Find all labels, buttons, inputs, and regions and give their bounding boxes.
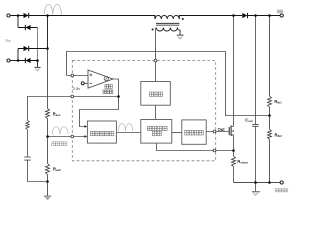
svg-text:Vin: Vin [5, 38, 11, 43]
svg-text:Rfb1: Rfb1 [274, 99, 282, 104]
svg-text:2.5v: 2.5v [73, 86, 80, 91]
svg-text:Rac2: Rac2 [53, 167, 61, 172]
svg-text:Out: Out [218, 127, 226, 132]
svg-text:Rac1: Rac1 [53, 111, 61, 116]
svg-text:Cout: Cout [245, 118, 252, 123]
svg-text:Rfb2: Rfb2 [275, 133, 283, 138]
svg-text:Rshunt: Rshunt [237, 159, 248, 164]
